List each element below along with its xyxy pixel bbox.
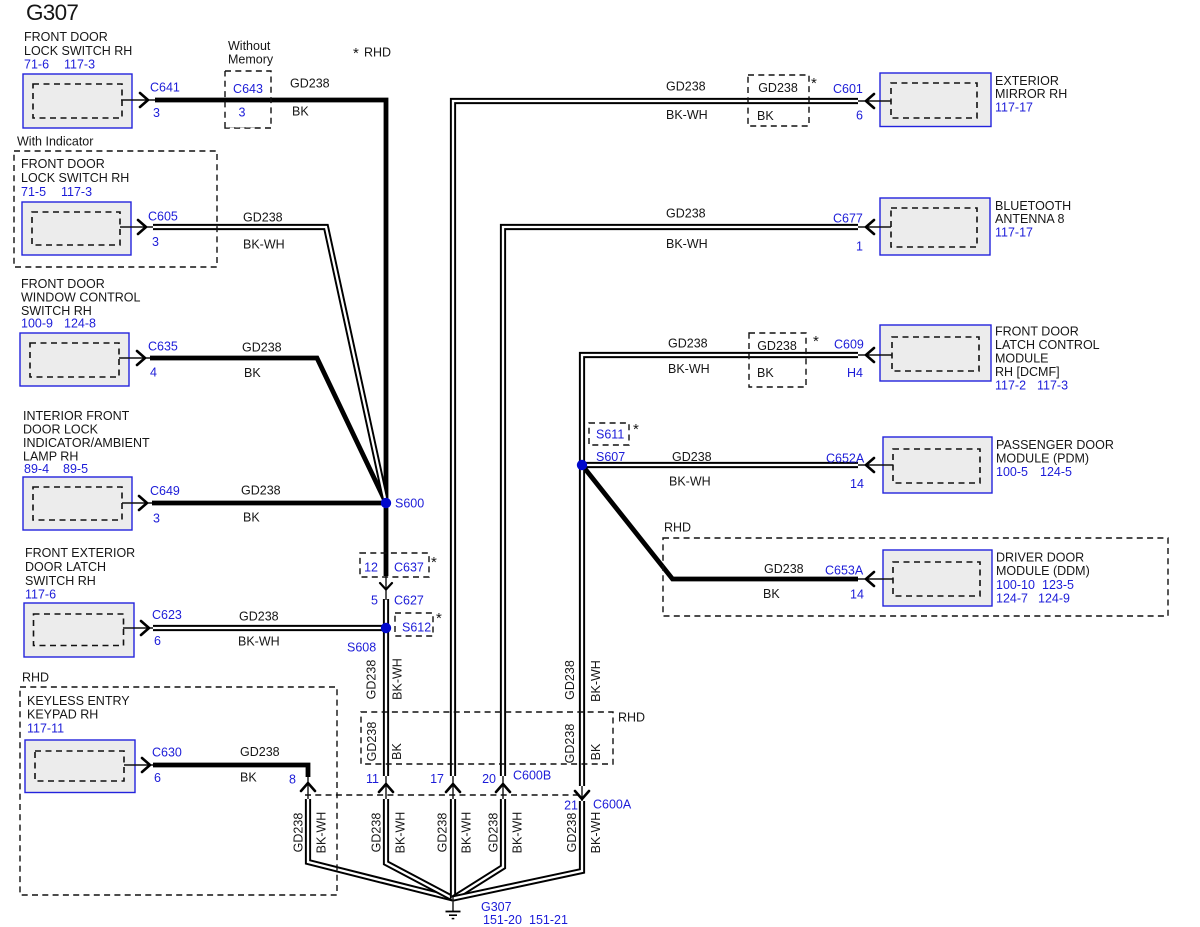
wire GD238 BK-WH from S608 down to C600B pin 11 xyxy=(383,628,389,776)
svg-text:3: 3 xyxy=(152,235,159,249)
component box: front door lock switch RH (with indicator) xyxy=(22,202,131,255)
component box: driver door module DDM xyxy=(883,550,992,606)
svg-text:FRONT DOOR: FRONT DOOR xyxy=(21,277,105,291)
svg-text:*: * xyxy=(431,554,437,571)
pin lead C649 xyxy=(122,502,152,504)
component box: front door window control switch RH xyxy=(20,333,129,386)
svg-text:1: 1 xyxy=(856,240,863,254)
RHD wire-variant box at C609 xyxy=(749,333,806,387)
svg-text:GD238: GD238 xyxy=(369,813,383,853)
svg-text:11: 11 xyxy=(366,772,379,786)
svg-text:RHD: RHD xyxy=(22,671,49,685)
svg-text:GD238: GD238 xyxy=(242,341,282,355)
svg-text:GD238: GD238 xyxy=(486,813,500,853)
svg-text:GD238: GD238 xyxy=(672,450,712,464)
splice S607 xyxy=(577,460,587,470)
svg-text:FRONT DOOR: FRONT DOOR xyxy=(995,325,1079,339)
svg-text:6: 6 xyxy=(154,634,161,648)
svg-text:C630: C630 xyxy=(152,746,182,760)
svg-text:3: 3 xyxy=(153,512,160,526)
connector C627 arrow xyxy=(385,576,387,600)
wire GD238 BK-WH from C627 pin 5 to S612/S608 xyxy=(383,599,389,628)
svg-text:71-5: 71-5 xyxy=(21,185,46,199)
connector C600B pin 17 arrow xyxy=(452,776,454,799)
svg-text:GD238: GD238 xyxy=(291,813,305,853)
svg-text:3: 3 xyxy=(239,106,246,120)
svg-text:C641: C641 xyxy=(150,81,180,95)
svg-text:100-10: 100-10 xyxy=(996,578,1035,592)
wire GD238 BK-WH from C601 exterior mirror down to C600B pin 17 xyxy=(453,101,858,776)
wire GD238 BK from C641 to S600 xyxy=(155,100,386,576)
ground G307 symbol xyxy=(452,897,454,911)
svg-text:BK-WH: BK-WH xyxy=(390,658,404,700)
svg-text:LATCH CONTROL: LATCH CONTROL xyxy=(995,338,1100,352)
svg-text:GD238: GD238 xyxy=(668,337,708,351)
svg-text:89-4: 89-4 xyxy=(24,462,49,476)
svg-text:BK-WH: BK-WH xyxy=(459,812,473,854)
svg-text:INDICATOR/AMBIENT: INDICATOR/AMBIENT xyxy=(23,436,150,450)
svg-text:DOOR LATCH: DOOR LATCH xyxy=(25,560,106,574)
svg-text:117-17: 117-17 xyxy=(995,226,1033,240)
svg-text:117-2: 117-2 xyxy=(995,379,1026,393)
component box: interior front door lock indicator/ambient lamp RH xyxy=(23,477,132,530)
dashed option box: RHD keyless entry keypad xyxy=(20,687,337,895)
svg-text:BK: BK xyxy=(757,109,774,123)
svg-text:BK-WH: BK-WH xyxy=(666,108,708,122)
component box: exterior mirror RH xyxy=(880,73,991,127)
svg-text:MODULE: MODULE xyxy=(995,352,1048,366)
svg-text:KEYLESS ENTRY: KEYLESS ENTRY xyxy=(27,694,130,708)
svg-text:*: * xyxy=(436,610,442,627)
svg-text:RHD: RHD xyxy=(664,521,691,535)
svg-text:RHD: RHD xyxy=(618,711,645,725)
svg-text:*: * xyxy=(813,333,819,350)
svg-text:BK: BK xyxy=(589,743,603,760)
wire GD238 BK from S607 to C653A DDM xyxy=(582,465,858,579)
svg-text:100-9: 100-9 xyxy=(21,317,53,331)
connector C600B pin 8 arrow xyxy=(307,777,309,799)
pin lead C623 xyxy=(123,627,153,629)
svg-text:151-21: 151-21 xyxy=(529,913,568,927)
svg-text:BK: BK xyxy=(763,587,780,601)
svg-text:BK: BK xyxy=(292,105,309,119)
svg-text:BK-WH: BK-WH xyxy=(669,475,711,489)
svg-text:124-5: 124-5 xyxy=(1040,465,1072,479)
svg-text:BK-WH: BK-WH xyxy=(314,812,328,854)
connector C600A pin 21 arrow xyxy=(581,786,583,801)
wire GD238 BK-WH from C600B pin 17 to ground G307 xyxy=(450,799,456,899)
svg-text:GD238: GD238 xyxy=(666,80,706,94)
connector C600B pin 20 arrow xyxy=(502,776,504,799)
svg-text:GD238: GD238 xyxy=(365,722,379,762)
svg-text:100-5: 100-5 xyxy=(996,465,1028,479)
svg-text:BK-WH: BK-WH xyxy=(589,660,603,702)
svg-text:BK: BK xyxy=(244,366,261,380)
svg-text:ANTENNA 8: ANTENNA 8 xyxy=(995,212,1065,226)
svg-text:S607: S607 xyxy=(596,450,625,464)
component box: front exterior door latch switch RH xyxy=(24,603,134,657)
svg-text:BK-WH: BK-WH xyxy=(589,812,603,854)
svg-text:FRONT DOOR: FRONT DOOR xyxy=(24,30,108,44)
wire GD238 BK-WH from C677 bluetooth antenna down to C600B pin 20 xyxy=(503,227,858,776)
svg-text:FRONT DOOR: FRONT DOOR xyxy=(21,157,105,171)
svg-text:GD238: GD238 xyxy=(563,660,577,700)
svg-text:BK-WH: BK-WH xyxy=(243,238,285,252)
component box: front door lock switch RH xyxy=(23,74,132,128)
svg-text:S608: S608 xyxy=(347,641,376,655)
svg-text:BK-WH: BK-WH xyxy=(666,237,708,251)
svg-text:124-7: 124-7 xyxy=(996,592,1028,606)
alternate splice S612 box xyxy=(395,613,433,636)
svg-text:89-5: 89-5 xyxy=(63,462,88,476)
svg-text:6: 6 xyxy=(856,109,863,123)
svg-text:GD238: GD238 xyxy=(666,207,706,221)
alternate splice S611 box xyxy=(589,423,629,445)
wire GD238 BK from C635 to S600 xyxy=(150,358,386,503)
svg-text:C600B: C600B xyxy=(513,769,551,783)
splice S600 xyxy=(381,498,391,508)
svg-text:C623: C623 xyxy=(152,608,182,622)
svg-text:GD238: GD238 xyxy=(565,813,579,853)
wire GD238 BK-WH from C600B pin 8 to ground G307 xyxy=(308,799,453,899)
svg-text:*: * xyxy=(353,45,359,62)
svg-text:RH [DCMF]: RH [DCMF] xyxy=(995,365,1060,379)
svg-text:GD238: GD238 xyxy=(435,813,449,853)
svg-text:C627: C627 xyxy=(394,594,424,608)
svg-text:GD238: GD238 xyxy=(290,77,330,91)
RHD wire-variant box at C601 xyxy=(748,75,809,126)
svg-text:BK: BK xyxy=(243,511,260,525)
svg-text:117-6: 117-6 xyxy=(25,588,56,602)
connector C600B pin 11 arrow xyxy=(385,776,387,799)
svg-text:DRIVER DOOR: DRIVER DOOR xyxy=(996,551,1084,565)
pin lead C605 xyxy=(120,226,153,228)
wire GD238 BK-WH from C600A pin 21 to ground G307 xyxy=(453,801,582,899)
pin lead C677 xyxy=(858,226,891,228)
svg-text:S611: S611 xyxy=(596,428,624,442)
svg-text:71-6: 71-6 xyxy=(24,58,49,72)
svg-text:117-11: 117-11 xyxy=(27,722,64,736)
svg-text:8: 8 xyxy=(289,773,296,787)
svg-text:124-8: 124-8 xyxy=(64,317,96,331)
svg-text:C653A: C653A xyxy=(825,564,864,578)
pin lead C641 xyxy=(121,99,155,101)
component box: front door latch control module RH [DCMF] xyxy=(880,325,991,381)
dashed option box: RHD wire variants mid xyxy=(361,712,613,764)
svg-text:123-5: 123-5 xyxy=(1042,578,1074,592)
svg-text:C677: C677 xyxy=(833,212,863,226)
svg-text:S612: S612 xyxy=(402,621,431,635)
pin lead C630 xyxy=(124,764,153,766)
svg-text:C635: C635 xyxy=(148,340,178,354)
svg-text:MODULE (PDM): MODULE (PDM) xyxy=(996,452,1089,466)
svg-text:3: 3 xyxy=(153,106,160,120)
in-line connector C643 (without memory) xyxy=(225,71,271,128)
wire GD238 BK from C649 to S600 xyxy=(152,501,386,506)
splice S608/S612 xyxy=(381,623,391,633)
pin lead C601 xyxy=(858,100,891,102)
dashed option box: with indicator xyxy=(14,151,217,267)
svg-text:GD238: GD238 xyxy=(239,610,279,624)
svg-text:Memory: Memory xyxy=(228,53,274,67)
svg-text:117-3: 117-3 xyxy=(64,58,95,72)
svg-text:BK: BK xyxy=(240,771,257,785)
svg-text:BLUETOOTH: BLUETOOTH xyxy=(995,199,1071,213)
svg-text:GD238: GD238 xyxy=(757,339,797,353)
svg-text:SWITCH RH: SWITCH RH xyxy=(25,574,96,588)
pin lead C652A xyxy=(858,464,893,466)
svg-text:C605: C605 xyxy=(148,210,178,224)
svg-text:GD238: GD238 xyxy=(240,745,280,759)
svg-text:G307: G307 xyxy=(26,0,78,25)
pin lead C653A xyxy=(858,578,893,580)
svg-text:WINDOW CONTROL: WINDOW CONTROL xyxy=(21,291,140,305)
wire GD238 BK-WH from C600B pin 20 to ground G307 xyxy=(453,799,503,899)
svg-text:BK-WH: BK-WH xyxy=(510,812,524,854)
svg-text:INTERIOR FRONT: INTERIOR FRONT xyxy=(23,409,130,423)
wire GD238 BK-WH from C623 to S612/S608 xyxy=(153,625,386,631)
svg-text:BK: BK xyxy=(390,743,404,760)
svg-text:20: 20 xyxy=(482,772,496,786)
svg-text:RHD: RHD xyxy=(364,46,391,60)
in-line connector C600B dashed line xyxy=(305,794,583,796)
svg-text:MIRROR RH: MIRROR RH xyxy=(995,87,1067,101)
component box: keyless entry keypad RH xyxy=(25,740,135,793)
pin lead C609 xyxy=(858,354,892,356)
svg-text:LOCK SWITCH RH: LOCK SWITCH RH xyxy=(21,171,129,185)
component box: bluetooth antenna 8 xyxy=(880,198,990,255)
svg-text:*: * xyxy=(633,421,639,438)
svg-text:With Indicator: With Indicator xyxy=(17,135,93,149)
svg-text:117-3: 117-3 xyxy=(61,185,92,199)
svg-text:12: 12 xyxy=(364,561,378,575)
wire GD238 BK-WH from C605 to S600 xyxy=(153,227,386,503)
svg-text:KEYPAD RH: KEYPAD RH xyxy=(27,708,98,722)
dashed option box: RHD driver door module xyxy=(663,538,1168,616)
wire GD238 BK-WH from S607 down to C600A pin 21 xyxy=(579,465,585,786)
svg-text:DOOR LOCK: DOOR LOCK xyxy=(23,423,99,437)
svg-text:MODULE (DDM): MODULE (DDM) xyxy=(996,564,1090,578)
svg-text:GD238: GD238 xyxy=(243,211,283,225)
wire GD238 BK-WH from C609 DCMF to S607 xyxy=(582,355,858,465)
pin lead C635 xyxy=(119,357,150,359)
svg-text:C643: C643 xyxy=(233,82,263,96)
svg-text:H4: H4 xyxy=(847,366,863,380)
svg-text:C600A: C600A xyxy=(593,798,632,812)
svg-text:PASSENGER DOOR: PASSENGER DOOR xyxy=(996,438,1114,452)
svg-text:S600: S600 xyxy=(395,497,424,511)
in-line connector C637 xyxy=(360,553,429,577)
svg-text:117-3: 117-3 xyxy=(1037,379,1068,393)
svg-text:C652A: C652A xyxy=(826,452,865,466)
svg-text:C609: C609 xyxy=(834,338,864,352)
svg-text:BK-WH: BK-WH xyxy=(668,362,710,376)
svg-text:14: 14 xyxy=(850,477,864,491)
svg-text:4: 4 xyxy=(150,366,157,380)
svg-text:*: * xyxy=(811,75,817,92)
svg-text:EXTERIOR: EXTERIOR xyxy=(995,74,1059,88)
svg-text:GD238: GD238 xyxy=(758,81,798,95)
wire GD238 BK from C630 to C600B pin 8 xyxy=(153,765,308,777)
svg-text:124-9: 124-9 xyxy=(1038,592,1070,606)
svg-text:C649: C649 xyxy=(150,484,180,498)
svg-text:C637: C637 xyxy=(394,561,424,575)
svg-text:151-20: 151-20 xyxy=(483,913,522,927)
svg-text:LOCK SWITCH RH: LOCK SWITCH RH xyxy=(24,44,132,58)
svg-text:GD238: GD238 xyxy=(764,562,804,576)
svg-text:Without: Without xyxy=(228,39,271,53)
svg-text:BK-WH: BK-WH xyxy=(238,635,280,649)
svg-text:5: 5 xyxy=(371,594,378,608)
svg-text:17: 17 xyxy=(430,772,444,786)
wire GD238 BK-WH from S607 to C652A PDM xyxy=(582,462,858,468)
svg-text:GD238: GD238 xyxy=(364,660,378,700)
svg-text:FRONT EXTERIOR: FRONT EXTERIOR xyxy=(25,546,135,560)
svg-text:GD238: GD238 xyxy=(563,724,577,764)
svg-text:117-17: 117-17 xyxy=(995,101,1033,115)
svg-text:C601: C601 xyxy=(833,82,863,96)
svg-text:BK: BK xyxy=(757,366,774,380)
svg-text:BK-WH: BK-WH xyxy=(393,812,407,854)
svg-text:GD238: GD238 xyxy=(241,484,281,498)
svg-text:6: 6 xyxy=(154,771,161,785)
svg-text:21: 21 xyxy=(564,799,578,813)
component box: passenger door module PDM xyxy=(883,437,992,493)
svg-text:14: 14 xyxy=(850,588,864,602)
wire GD238 BK-WH from C600B pin 11 to ground G307 xyxy=(386,799,453,899)
svg-text:G307: G307 xyxy=(481,900,512,914)
